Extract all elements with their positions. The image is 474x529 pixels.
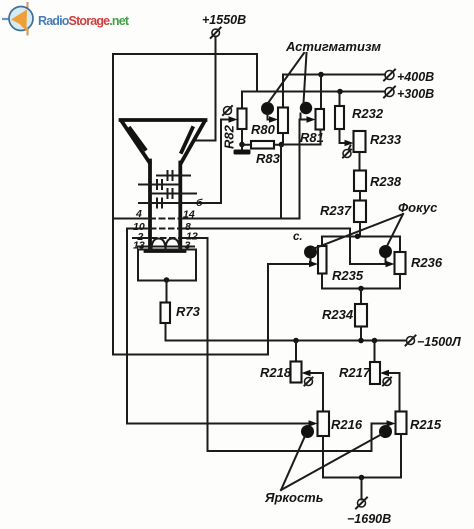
pointer to R235 wiper bbox=[313, 214, 403, 249]
wire R73 to -1500 rail bbox=[165, 323, 167, 341]
svg-text:с.: с. bbox=[293, 231, 303, 243]
wiper R216 arrow bbox=[309, 420, 318, 426]
wiper R215 arrow bbox=[387, 420, 396, 426]
svg-text:R215: R215 bbox=[410, 417, 442, 432]
node socket bottom bbox=[164, 277, 170, 283]
wire R234 bottom lead bbox=[360, 327, 362, 341]
wire riser x=268 from focus-wiper line to bottom-left wire bbox=[267, 264, 269, 355]
resistor R215 bbox=[396, 412, 407, 435]
wire R80 top lead bbox=[282, 75, 284, 108]
resistor R73 bbox=[161, 303, 171, 324]
svg-text:R216: R216 bbox=[331, 417, 363, 432]
wire R81 bottom lead bbox=[320, 130, 322, 145]
pointer to R215 wiper bbox=[281, 434, 382, 490]
node +300/R232 bbox=[337, 89, 343, 95]
resistor R216 bbox=[318, 412, 330, 437]
wiper R236 bbox=[350, 245, 395, 267]
resistor R218 bbox=[291, 362, 302, 383]
wire R82 bottom to ground bbox=[241, 129, 243, 145]
CRT deflection plate right (anode) bbox=[182, 128, 193, 152]
wire R237 bottom lead bbox=[359, 222, 361, 237]
wire R218 top lead bbox=[295, 341, 297, 362]
wire +300 rail bbox=[242, 91, 385, 93]
CRT tube funnel and screen bbox=[121, 120, 206, 251]
terminal R218 wiper bbox=[305, 378, 313, 386]
wire pin13-pin3 row bbox=[138, 246, 194, 248]
node R83 right bbox=[279, 142, 285, 148]
svg-text:+400В: +400В bbox=[397, 70, 434, 84]
svg-text:R235: R235 bbox=[332, 268, 364, 283]
svg-text:R232: R232 bbox=[352, 106, 384, 121]
CRT grid electrode row 3 bbox=[151, 189, 196, 198]
wire left box (top, left, right edges) bbox=[113, 54, 257, 355]
wire -1500 rail bbox=[166, 340, 407, 342]
node R218 rail bbox=[293, 338, 299, 344]
resistor R232 bbox=[335, 106, 344, 129]
node R234 rail bbox=[358, 338, 364, 344]
terminal -1690 bbox=[347, 498, 391, 527]
resistor R236 bbox=[395, 252, 406, 274]
terminal R217 wiper bbox=[383, 378, 391, 386]
pointer to R80 wiper bbox=[268, 53, 304, 103]
wire R217 top lead bbox=[374, 341, 376, 363]
wire focus frame top bbox=[322, 237, 400, 253]
terminal +400 bbox=[384, 70, 434, 85]
svg-text:R236: R236 bbox=[411, 255, 443, 270]
svg-text:R237: R237 bbox=[320, 203, 352, 218]
wire pin4-pin14 row bbox=[113, 218, 147, 220]
resistor R217 bbox=[370, 362, 380, 384]
resistor R81 bbox=[316, 109, 325, 130]
CRT deflection plate left bbox=[130, 129, 145, 150]
node bottom bus bbox=[359, 475, 365, 481]
node R217 rail bbox=[372, 338, 378, 344]
ground bbox=[234, 145, 251, 155]
resistor R233 bbox=[354, 131, 366, 152]
terminal R82 wiper bbox=[223, 106, 232, 115]
svg-text:+300В: +300В bbox=[397, 87, 434, 101]
terminal R233 wiper bbox=[343, 146, 351, 158]
CRT grid electrode row 1 bbox=[157, 171, 190, 180]
svg-text:4: 4 bbox=[135, 208, 142, 220]
wire pin14 riser to R83 node bbox=[280, 145, 282, 219]
CRT grid electrode row 2 bbox=[139, 180, 179, 189]
wire б electrode riser to R82 wiper bbox=[220, 120, 222, 204]
wire R232 bottom to R233 wiper arrow bbox=[340, 129, 354, 146]
pointer to R81 wiper bbox=[304, 53, 307, 103]
svg-text:Астигматизм: Астигматизм bbox=[285, 39, 381, 54]
wire pin10-pin8 row bbox=[127, 228, 147, 230]
resistor R83 bbox=[242, 141, 282, 149]
wire pin12 riser bbox=[207, 238, 209, 451]
node frame bottom bbox=[358, 286, 364, 292]
wire R234 top lead bbox=[360, 289, 362, 305]
wire R232 top lead bbox=[339, 92, 341, 107]
CRT heater filaments bbox=[152, 239, 180, 251]
wire R238 to R237 bbox=[359, 191, 361, 201]
wire pin2-pin12 row bbox=[133, 237, 147, 239]
wire focus frame bottom bbox=[322, 274, 400, 289]
wire R233 to R238 bbox=[359, 152, 361, 171]
svg-text:R80: R80 bbox=[251, 122, 276, 137]
resistor R238 bbox=[354, 171, 366, 192]
logo RadioStorage.net bbox=[2, 2, 130, 36]
svg-text:R218: R218 bbox=[260, 365, 292, 380]
terminal -1500 bbox=[406, 335, 462, 349]
node R82 bottom bbox=[239, 142, 245, 148]
wiper R218 bbox=[302, 370, 324, 412]
wire pin12 to R215 wiper bbox=[208, 424, 388, 452]
node R216 wiper bbox=[301, 425, 314, 438]
wire R80 bottom lead bbox=[282, 133, 284, 145]
svg-text:Фокус: Фокус bbox=[398, 200, 438, 215]
node R215 wiper bbox=[379, 425, 392, 438]
resistor R237 bbox=[354, 201, 366, 223]
wire R82 top lead bbox=[241, 92, 243, 109]
svg-text:R83: R83 bbox=[256, 151, 281, 166]
wire pin10 riser to R216 wiper bbox=[126, 229, 128, 424]
wire bottom-left horizontal to rail riser bbox=[113, 354, 268, 356]
terminal +1550 В bbox=[202, 13, 246, 38]
svg-text:R234: R234 bbox=[322, 307, 354, 322]
resistor R234 bbox=[355, 304, 367, 327]
wire R81 wiper to bottom bus riser bbox=[299, 120, 301, 218]
resistor R82 bbox=[238, 109, 247, 130]
svg-text:−1500Л: −1500Л bbox=[417, 335, 461, 349]
socket box bbox=[138, 250, 196, 281]
wire cathode row riser to R236 wiper bbox=[349, 229, 351, 265]
wire R216 wiper feed bbox=[127, 423, 309, 425]
svg-text:+1550В: +1550В bbox=[202, 13, 246, 27]
svg-text:14: 14 bbox=[183, 209, 195, 221]
wire to -1690 terminal bbox=[361, 478, 363, 500]
svg-text:б: б bbox=[196, 197, 203, 209]
svg-text:R73: R73 bbox=[176, 304, 201, 319]
node +400/R81 bbox=[318, 72, 324, 78]
wire +1550 В vertical to CRT anode bbox=[195, 37, 216, 141]
wire R82 wiper arrow bbox=[221, 116, 238, 122]
wiper R80 bbox=[261, 102, 278, 123]
wire socket to R73 bbox=[166, 280, 168, 303]
wire +400 rail bbox=[283, 74, 385, 76]
svg-text:Яркость: Яркость bbox=[264, 490, 323, 505]
svg-text:R82: R82 bbox=[222, 124, 237, 149]
wiper R217 bbox=[380, 370, 400, 412]
wire R80/R81 bottom bus bbox=[282, 144, 321, 146]
CRT grid electrode row б bbox=[139, 199, 221, 208]
node frame top bbox=[355, 234, 361, 240]
svg-text:R238: R238 bbox=[370, 174, 402, 189]
pointer to R236 wiper bbox=[387, 214, 403, 246]
wire R216/R215 bottoms bus bbox=[323, 434, 401, 478]
resistor R235 bbox=[318, 246, 327, 274]
pointer to R216 wiper bbox=[281, 436, 305, 490]
resistor R80 bbox=[278, 108, 288, 134]
wiper R235 bbox=[268, 246, 318, 268]
terminal +300 bbox=[384, 87, 434, 102]
svg-text:R217: R217 bbox=[339, 365, 371, 380]
wiper R81 bbox=[300, 102, 316, 123]
svg-text:RadioStorage.net: RadioStorage.net bbox=[38, 14, 130, 28]
wire +400 down to R81 bbox=[320, 75, 322, 110]
svg-text:R233: R233 bbox=[370, 132, 402, 147]
svg-text:−1690В: −1690В bbox=[347, 512, 391, 526]
